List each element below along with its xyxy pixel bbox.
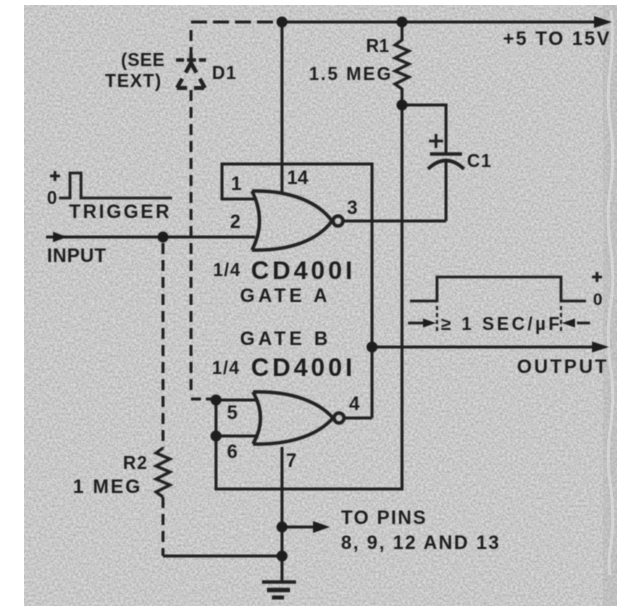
- svg-text:4: 4: [349, 394, 360, 415]
- wire gate B pin5: [216, 399, 257, 402]
- wire pin 7 to ground: [281, 447, 284, 582]
- wire dashed D1 branch lower: [190, 90, 193, 393]
- svg-text:D1: D1: [212, 63, 237, 83]
- ground: [262, 582, 296, 598]
- arrow +V rail: [594, 16, 612, 28]
- svg-text:OUTPUT: OUTPUT: [517, 357, 609, 378]
- wire R2 bottom to ground wire: [163, 555, 281, 558]
- node R1/C1 junction: [397, 100, 408, 111]
- wire gate A pin1 feedback box: [222, 164, 372, 418]
- wire gate B pin6: [216, 435, 257, 438]
- arrow output: [592, 342, 609, 353]
- capacitor C1: [430, 152, 462, 156]
- wire to-pins branch: [282, 526, 314, 529]
- svg-text:≥ 1 SEC/µF: ≥ 1 SEC/µF: [441, 314, 562, 334]
- svg-text:TRIGGER: TRIGGER: [69, 202, 172, 223]
- svg-text:(SEE: (SEE: [121, 50, 165, 70]
- trigger waveform: [50, 171, 172, 198]
- output waveform: [408, 272, 602, 333]
- diode D1 center stub: [189, 54, 193, 65]
- gate B NOR: [253, 392, 344, 444]
- node trigger input / R2: [158, 232, 169, 243]
- svg-text:INPUT: INPUT: [47, 246, 107, 267]
- svg-text:1 MEG: 1 MEG: [73, 477, 142, 498]
- svg-text:1: 1: [231, 174, 242, 195]
- svg-text:1.5 MEG: 1.5 MEG: [309, 64, 393, 84]
- svg-text:2: 2: [230, 212, 241, 233]
- dimension lines: [408, 322, 425, 325]
- svg-text:5: 5: [227, 403, 238, 424]
- arrow dim right: [562, 319, 575, 328]
- wire dashed D1 branch upper: [190, 30, 193, 54]
- wire top supply rail: [282, 21, 596, 24]
- svg-text:CD400I: CD400I: [251, 354, 356, 382]
- svg-text:C1: C1: [467, 151, 492, 171]
- node top rail / pin14: [277, 17, 288, 28]
- diode D1 cathode bar: [176, 58, 206, 62]
- wire dashed D1 bend to pin5: [191, 398, 212, 401]
- svg-text:R1: R1: [366, 36, 389, 56]
- arrowheads: [53, 16, 612, 533]
- arrow dim left: [423, 319, 436, 328]
- svg-text:R2: R2: [123, 453, 148, 473]
- wire junction down to gate B inputs: [216, 105, 402, 489]
- arrow input: [53, 232, 67, 242]
- arrow to-pins: [313, 521, 330, 533]
- svg-text:GATE B: GATE B: [240, 329, 331, 350]
- node to-pins: [277, 522, 288, 533]
- wire dashed R2 branch upper: [162, 243, 165, 448]
- diode D1 triangle: [177, 63, 191, 88]
- svg-text:+5 TO 15V: +5 TO 15V: [503, 29, 611, 50]
- svg-text:3: 3: [347, 198, 358, 219]
- wire R1 bottom to C1: [402, 105, 446, 153]
- wire gate B pin4 to feedback: [343, 417, 372, 420]
- svg-text:6: 6: [227, 442, 238, 463]
- resistor R1: [395, 22, 409, 105]
- svg-text:TO PINS: TO PINS: [341, 508, 427, 529]
- wire dashed top rail to D1: [191, 21, 282, 24]
- wire gate A pin3 output to C1: [343, 220, 446, 223]
- node dots: [158, 17, 408, 562]
- svg-text:GATE A: GATE A: [240, 286, 331, 307]
- svg-text:TEXT): TEXT): [105, 71, 162, 91]
- resistor R2: [156, 448, 170, 497]
- node output tap: [367, 342, 378, 353]
- wire trigger input line: [46, 236, 255, 239]
- svg-text:CD400I: CD400I: [251, 257, 356, 285]
- wire dashed R2 branch lower: [162, 497, 165, 556]
- svg-text:1/4: 1/4: [213, 260, 241, 280]
- svg-text:1/4: 1/4: [212, 358, 240, 378]
- svg-text:7: 7: [286, 451, 297, 472]
- node R2 return: [277, 551, 288, 562]
- node gate B pin5: [211, 395, 222, 406]
- svg-text:0: 0: [47, 188, 57, 208]
- node gate B pin6: [211, 431, 222, 442]
- wire pin 14 drop: [281, 22, 284, 192]
- wire output line: [372, 346, 596, 349]
- capacitor C1 plus: [429, 134, 443, 148]
- svg-text:0: 0: [593, 290, 602, 309]
- gate A NOR: [252, 191, 343, 250]
- svg-text:8, 9, 12 AND 13: 8, 9, 12 AND 13: [341, 533, 501, 554]
- node top rail / R1: [397, 17, 408, 28]
- scan edge shading right: [603, 5, 617, 606]
- svg-text:14: 14: [287, 168, 309, 189]
